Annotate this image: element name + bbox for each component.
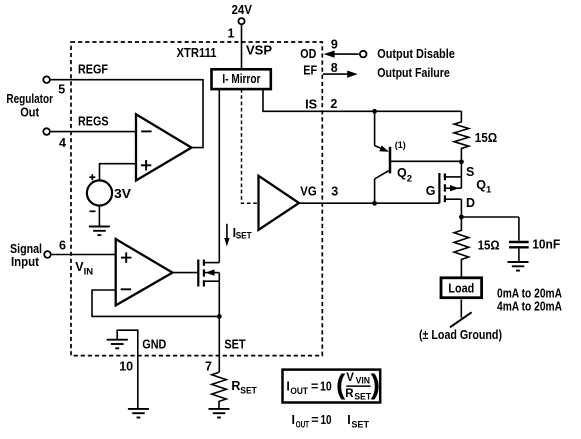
- terminal OD input: [360, 51, 367, 58]
- resistor R2 15ohm lower: [454, 217, 469, 277]
- svg-text:I: I: [286, 379, 289, 393]
- svg-text:15Ω: 15Ω: [475, 131, 498, 145]
- label EF: [303, 63, 317, 77]
- I-Mirror block U1: [212, 69, 271, 89]
- dashed control wire I-Mirror to VG buffer: [242, 89, 259, 203]
- svg-text:10: 10: [320, 379, 332, 393]
- svg-text:2: 2: [330, 97, 337, 111]
- svg-text:Out: Out: [20, 106, 40, 120]
- svg-text:IN: IN: [84, 267, 94, 278]
- svg-text:I- Mirror: I- Mirror: [222, 72, 260, 86]
- voltage source 3V: [87, 174, 132, 211]
- svg-text:Q: Q: [397, 166, 407, 180]
- wire I-Mirror left output down to M1 drain: [218, 89, 220, 263]
- capacitor C1 10nF: [509, 217, 529, 262]
- ground external below pin 10: [128, 409, 149, 418]
- wire VG output to Q1 gate: [299, 202, 439, 204]
- svg-text:4: 4: [59, 136, 66, 150]
- svg-text:IS: IS: [305, 97, 317, 111]
- svg-text:1: 1: [486, 185, 492, 196]
- svg-text:REGS: REGS: [78, 115, 109, 129]
- wire A1 noninverting input to 3V source: [100, 164, 137, 181]
- label Output Disable: [377, 47, 455, 61]
- wire load to ground tap: [460, 300, 462, 318]
- node D junction: [459, 215, 464, 220]
- resistor RSET: [212, 372, 227, 409]
- terminal 24V: [238, 18, 244, 24]
- svg-text:24V: 24V: [232, 3, 253, 17]
- formula IOUT = 10 ISET: [292, 413, 370, 431]
- label XTR111: [177, 46, 217, 60]
- svg-text:R: R: [231, 379, 240, 393]
- svg-text:10: 10: [119, 360, 133, 374]
- svg-text:OD: OD: [300, 47, 316, 61]
- label REGS: [78, 115, 109, 129]
- svg-text:): ): [371, 368, 380, 399]
- label ISET: [233, 226, 252, 242]
- wire REGF to A1 output: [51, 80, 203, 148]
- label D: [466, 196, 475, 210]
- svg-text:Load: Load: [448, 282, 474, 296]
- svg-text:1: 1: [228, 27, 235, 41]
- svg-text:4mA to 20mA: 4mA to 20mA: [497, 300, 562, 314]
- label Signal Input: [10, 242, 42, 269]
- svg-text:Regulator: Regulator: [6, 92, 53, 106]
- ground below capacitor: [508, 262, 529, 271]
- svg-text:15Ω: 15Ω: [478, 239, 500, 253]
- pin label 9: [331, 37, 338, 51]
- node VG junction: [372, 201, 377, 206]
- node S junction: [459, 159, 464, 164]
- svg-text:5: 5: [58, 83, 65, 97]
- svg-text:Input: Input: [11, 255, 40, 269]
- svg-text:EF: EF: [303, 63, 317, 77]
- svg-text:SET: SET: [351, 420, 369, 431]
- label 15ohm upper: [475, 131, 498, 145]
- svg-text:2: 2: [407, 174, 412, 185]
- label SET: [224, 338, 246, 352]
- svg-text:=: =: [311, 413, 318, 427]
- wire VIN to A2: [52, 254, 116, 256]
- pin label 1: [228, 27, 235, 41]
- svg-text:OUT: OUT: [296, 420, 310, 431]
- dashed IC boundary box XTR111: [71, 42, 322, 356]
- label OD: [300, 47, 316, 61]
- pin label 8: [331, 61, 338, 75]
- svg-text:VIN: VIN: [356, 376, 370, 386]
- svg-text:GND: GND: [142, 338, 166, 352]
- label 10nF: [532, 237, 560, 251]
- wire A2 feedback: [92, 290, 219, 316]
- svg-text:SET: SET: [224, 338, 246, 352]
- svg-text:7: 7: [205, 360, 212, 374]
- svg-text:XTR111: XTR111: [177, 46, 217, 60]
- label 15ohm lower: [478, 239, 500, 253]
- label Q1: [476, 178, 492, 196]
- svg-text:3: 3: [331, 184, 338, 198]
- svg-text:(1): (1): [395, 140, 406, 151]
- label Regulator Out: [6, 92, 53, 120]
- svg-text:8: 8: [331, 61, 338, 75]
- pin label 5: [58, 83, 65, 97]
- ground small at GND pin: [107, 340, 128, 349]
- svg-text:REGF: REGF: [78, 62, 108, 76]
- transistor Q1 PMOS: [439, 162, 461, 217]
- label IS: [305, 97, 317, 111]
- transistor M1 internal NMOS: [198, 260, 219, 317]
- svg-text:SET: SET: [354, 391, 371, 401]
- pin label 2: [330, 97, 337, 111]
- wire EF with right arrow: [323, 71, 358, 78]
- svg-text:3V: 3V: [114, 187, 132, 201]
- wire A2 output to M1 gate: [173, 272, 199, 274]
- svg-text:Q: Q: [476, 178, 486, 192]
- label Output Failure: [377, 66, 450, 80]
- svg-text:(± Load Ground): (± Load Ground): [419, 328, 502, 342]
- label (1): [395, 140, 406, 151]
- wire 3V to ground: [98, 206, 100, 227]
- svg-text:OUT: OUT: [290, 386, 308, 397]
- transistor Q2 PNP: [375, 111, 462, 203]
- label G: [426, 184, 436, 198]
- buffer amplifier VG: [259, 176, 300, 230]
- label current ranges: [497, 286, 562, 313]
- svg-text:G: G: [426, 184, 436, 198]
- wire I-Mirror right output (IS): [263, 89, 461, 111]
- pin label 7: [205, 360, 212, 374]
- formula box IOUT: [283, 368, 381, 402]
- label RSET: [231, 379, 257, 397]
- svg-text:6: 6: [59, 239, 66, 253]
- label GND: [142, 338, 166, 352]
- label VSP: [246, 44, 272, 58]
- pin label 10: [119, 360, 133, 374]
- svg-text:10nF: 10nF: [532, 237, 560, 251]
- load block: [441, 278, 482, 298]
- op-amp A1: [136, 114, 192, 180]
- pin label 4: [59, 136, 66, 150]
- svg-text:Output Failure: Output Failure: [377, 66, 450, 80]
- label REGF: [78, 62, 108, 76]
- wire SET pin to RSET: [218, 316, 220, 372]
- pin label 6: [59, 239, 66, 253]
- svg-text:I: I: [292, 413, 295, 427]
- svg-text:SET: SET: [240, 386, 257, 397]
- label 24V: [232, 3, 253, 17]
- internal GND connection: [117, 330, 138, 408]
- wire OD with left arrow: [324, 51, 359, 58]
- svg-text:I: I: [347, 413, 350, 427]
- label load ground: [419, 328, 502, 342]
- label VG: [300, 185, 316, 199]
- terminal pin 4: [43, 128, 50, 135]
- resistor R1 15ohm upper: [454, 111, 469, 162]
- node SET junction: [217, 314, 222, 319]
- svg-text:Output Disable: Output Disable: [377, 47, 455, 61]
- svg-text:SET: SET: [236, 231, 252, 242]
- svg-text:S: S: [466, 165, 474, 179]
- wire D node to capacitor: [461, 216, 519, 218]
- svg-text:0mA to 20mA: 0mA to 20mA: [497, 286, 562, 300]
- label VIN: [75, 260, 93, 277]
- svg-text:R: R: [345, 388, 354, 400]
- ground below RSET: [209, 409, 230, 418]
- svg-text:9: 9: [331, 37, 338, 51]
- label Q2: [397, 166, 412, 185]
- terminal pin 5: [43, 76, 50, 83]
- svg-text:VG: VG: [300, 185, 316, 199]
- svg-text:=: =: [311, 379, 318, 393]
- ground below 3V: [89, 227, 110, 236]
- svg-text:10: 10: [321, 413, 332, 427]
- node IS junction: [372, 109, 377, 114]
- op-amp A2: [116, 239, 173, 305]
- terminal pin 6: [44, 251, 51, 258]
- svg-text:VSP: VSP: [246, 44, 272, 58]
- svg-text:V: V: [346, 372, 354, 384]
- pin label 3: [331, 184, 338, 198]
- label S: [466, 165, 474, 179]
- wire REGS to A1 inverting input: [51, 131, 136, 133]
- slash load ground: [450, 312, 472, 327]
- wire 24V to I-Mirror: [241, 25, 243, 69]
- current arrow ISET: [224, 224, 229, 247]
- svg-text:D: D: [466, 196, 475, 210]
